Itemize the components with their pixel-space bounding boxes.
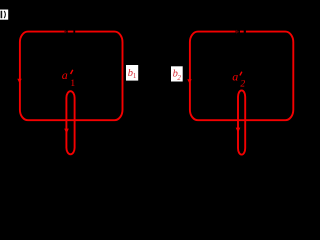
curve a'1 : tall narrow red oval, loop 1	[66, 91, 74, 154]
red down-arrow on oval a'2 left side	[236, 128, 241, 133]
label box b1	[126, 65, 138, 81]
svg-text:2: 2	[240, 79, 245, 89]
black arrowhead gap on loop 2 top edge	[236, 30, 240, 35]
red down-arrow on oval a'1 left side	[64, 129, 69, 134]
svg-text:a: a	[232, 70, 238, 84]
svg-text:1: 1	[133, 72, 137, 80]
red down-arrow on loop 2 left edge	[187, 79, 191, 83]
loop 2 : rounded-square red curve	[190, 32, 293, 121]
svg-text:2: 2	[177, 74, 181, 82]
label box b2	[171, 66, 183, 81]
loop 1 : rounded-square red curve	[20, 32, 123, 121]
red down-arrow on loop 1 left edge	[17, 79, 21, 83]
svg-text:a: a	[62, 68, 68, 82]
curve a'2 : tall narrow red oval, loop 2	[238, 90, 245, 154]
svg-text:1: 1	[70, 79, 75, 89]
black arrowhead gap on loop 1 top edge	[65, 30, 68, 35]
label box 0) top-left	[0, 10, 8, 20]
